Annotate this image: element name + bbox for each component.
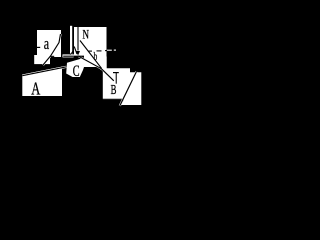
incline line in box B: [120, 72, 137, 106]
white extension right of patch b: [100, 57, 107, 70]
table edge line (black core over strip and C patch top): [63, 55, 84, 57]
string S3b core: [80, 41, 102, 69]
string S1 core (black over white): [43, 34, 61, 65]
patch b (white label patch): [84, 57, 101, 68]
wing mark over box N: [74, 47, 77, 55]
arrow inside box N (black, pointing down): [77, 27, 79, 51]
T mark above B: [113, 72, 119, 73]
ground line under B: [103, 98, 123, 100]
svg-text:N: N: [83, 28, 90, 42]
svg-text:C: C: [73, 63, 80, 80]
a-box bottom edge dash: [50, 55, 54, 57]
string S3b halo (upper line to B corner): [80, 41, 102, 69]
box a (white patch): [37, 30, 61, 57]
svg-text:b: b: [94, 49, 98, 63]
dashed line b (black dashes over white): [88, 50, 92, 52]
string S2 halo (A to C): [22, 67, 66, 76]
svg-text:B: B: [111, 83, 117, 98]
N force arrow halo stripe (white, on black left of box N): [70, 26, 72, 55]
outer arrow head wings (black over white stripe): [68, 52, 70, 55]
string S1 halo (A up through box a): [43, 34, 61, 65]
patch C (white patch, sloped top): [66, 57, 86, 77]
string S3a core: [78, 56, 114, 81]
svg-text:A: A: [31, 78, 40, 98]
box N (white patch): [74, 27, 107, 57]
string S2 core (black over white): [22, 67, 66, 76]
patch below box a (halo zone of string S1): [34, 55, 50, 64]
dash left of letter a: [37, 47, 40, 48]
hanger tick above C: [73, 57, 75, 60]
box B (white patch): [103, 68, 142, 105]
table strip left of N: [63, 54, 75, 57]
background: [0, 0, 146, 107]
dashed line b (white dashes over black): [107, 49, 112, 51]
string S3a halo (arrow tip to B corner and into B): [78, 56, 114, 81]
svg-text:a: a: [44, 34, 50, 53]
box A (white patch, sloped top along string S2): [22, 67, 62, 96]
